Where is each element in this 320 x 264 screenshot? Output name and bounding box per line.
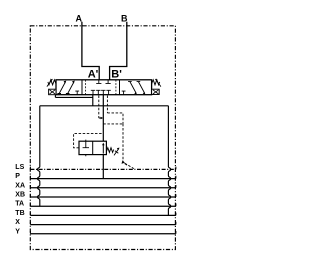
svg-text:B': B'	[111, 69, 122, 81]
svg-text:TB: TB	[15, 210, 24, 217]
svg-text:TA: TA	[15, 201, 24, 208]
svg-text:LS: LS	[15, 164, 24, 171]
svg-text:A': A'	[88, 69, 99, 81]
svg-text:XA: XA	[15, 182, 25, 189]
svg-text:XB: XB	[15, 192, 25, 199]
svg-text:Y: Y	[15, 228, 20, 235]
svg-text:P: P	[15, 173, 20, 180]
svg-text:A: A	[76, 14, 83, 24]
svg-text:B: B	[121, 14, 128, 24]
svg-text:X: X	[15, 219, 20, 226]
